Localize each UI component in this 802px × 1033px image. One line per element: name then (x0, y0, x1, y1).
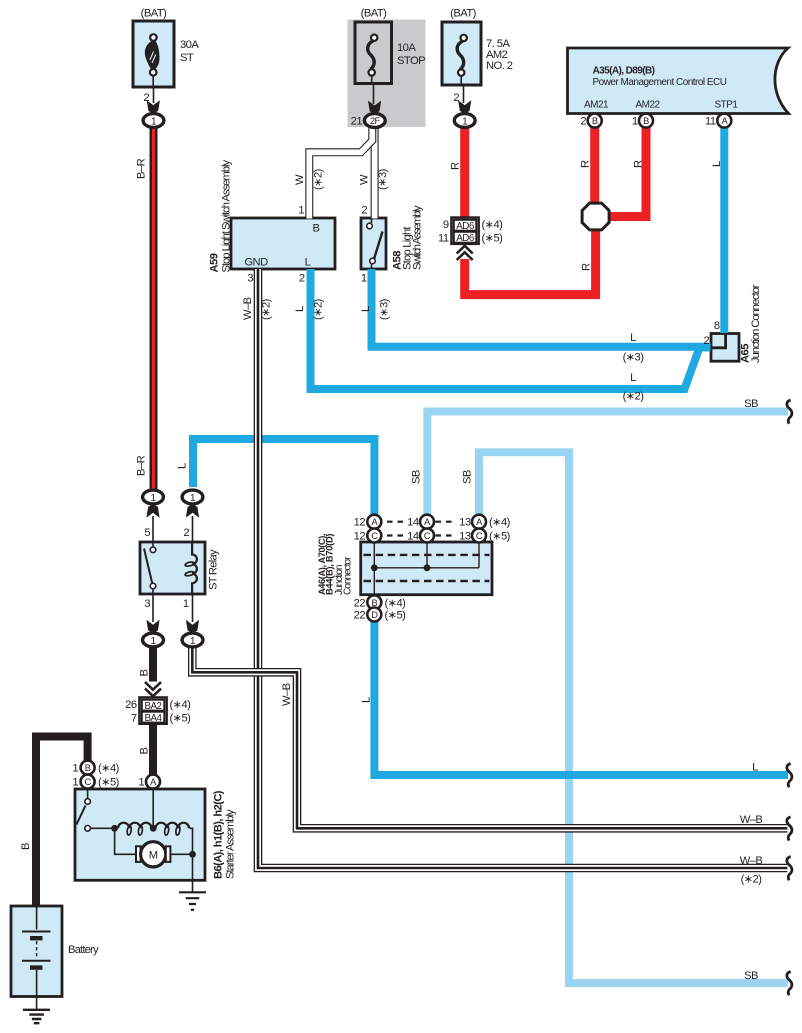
battery internals (22, 863, 51, 1010)
svg-text:L: L (630, 372, 636, 384)
ground below battery (23, 1010, 50, 1023)
connector circle B at ECU AM21 (588, 114, 602, 128)
svg-text:M: M (149, 849, 158, 861)
double chevron above BA2 pointing down (145, 682, 161, 696)
svg-text:L: L (361, 697, 373, 703)
svg-text:2: 2 (453, 92, 459, 104)
svg-text:2: 2 (299, 273, 305, 285)
wire R from fuse 7.5A to AD6 (460, 128, 469, 219)
junction circles 12A 12C (367, 515, 381, 543)
wire B thick black relay pin3 to BA2 (149, 647, 157, 682)
stop light switch A59 box (231, 218, 335, 269)
wire L variant 2 from A59 pin L to A65 pin 2 (311, 269, 711, 389)
svg-text:(∗4): (∗4) (98, 763, 120, 775)
wire break squiggle right edge W-B 827 (787, 817, 792, 841)
svg-text:2: 2 (361, 205, 367, 217)
junction circles 13A 13C (472, 515, 486, 543)
svg-text:R: R (580, 160, 592, 168)
svg-text:(∗5): (∗5) (170, 712, 192, 724)
svg-text:1: 1 (361, 273, 367, 285)
svg-text:1: 1 (72, 763, 78, 775)
fuse 30A pin2 wire and arrow into oval 1 (143, 87, 164, 127)
svg-text:SB: SB (744, 970, 758, 982)
fuse 10A symbol (368, 41, 375, 69)
connector BA2/BA4 double box (140, 698, 167, 724)
svg-text:7: 7 (131, 712, 137, 724)
svg-text:Junction Connector: Junction Connector (750, 284, 762, 363)
oval 1 and up-arrow above relay pin 5 (143, 490, 164, 517)
svg-text:B: B (139, 670, 151, 677)
wire L from A58 pin1 to A65 pin 2 (372, 269, 711, 347)
wire W-B hollow striped from A59 GND to right edge (258, 269, 787, 868)
svg-text:R: R (633, 160, 645, 168)
fuse 30A symbol (145, 40, 158, 69)
junction connector A46/B44 box (361, 542, 492, 595)
svg-text:10A: 10A (397, 42, 416, 54)
svg-text:A59: A59 (209, 253, 221, 272)
svg-text:(∗2): (∗2) (623, 391, 645, 403)
double chevron below AD6 pointing up (457, 246, 473, 260)
svg-text:ST: ST (180, 52, 194, 64)
connector circle B at ECU AM22 (639, 114, 653, 128)
svg-text:B: B (643, 116, 649, 126)
svg-text:(∗2): (∗2) (313, 298, 325, 320)
ST relay internals coil pin2-pin1 (185, 542, 197, 594)
svg-text:11: 11 (705, 116, 716, 128)
svg-text:GND: GND (244, 257, 268, 269)
wire R from ECU AM21 to octagon (590, 128, 599, 205)
svg-text:Stop Light Switch Assembly: Stop Light Switch Assembly (221, 160, 233, 273)
svg-text:B: B (592, 116, 598, 126)
svg-text:(∗2): (∗2) (741, 874, 763, 886)
svg-text:AD6: AD6 (456, 233, 475, 244)
svg-text:W–B: W–B (740, 855, 763, 867)
svg-text:NO. 2: NO. 2 (486, 60, 513, 72)
svg-text:22: 22 (354, 610, 366, 622)
wire L from ECU STP1 to A65 pin 8 (720, 128, 728, 334)
octagon noise filter on AM21 wire (582, 203, 609, 230)
svg-text:W–B: W–B (242, 297, 254, 320)
svg-text:14: 14 (407, 517, 419, 529)
svg-text:SB: SB (411, 470, 423, 484)
svg-text:C: C (371, 531, 378, 541)
fuse 30A ST box (133, 21, 174, 87)
svg-text:B: B (85, 763, 91, 773)
wire break squiggle right edge SB 981 (787, 972, 792, 996)
fuse 10A STOP box (355, 22, 392, 84)
svg-text:AM21: AM21 (584, 100, 609, 111)
svg-text:L: L (294, 306, 306, 312)
svg-text:(∗4): (∗4) (170, 699, 192, 711)
svg-text:(∗4): (∗4) (489, 517, 511, 529)
wire W hollow from fuse 10A oval 2F to A58 pin 2 (371, 125, 379, 219)
starter assembly internals magnetic switch (77, 789, 112, 831)
fuse 7.5A AM2 NO.2 box (442, 22, 481, 85)
wire break squiggle right edge L 775 (787, 764, 792, 788)
A58 switch internals (367, 218, 383, 269)
svg-text:STOP: STOP (397, 55, 425, 67)
svg-text:ST Relay: ST Relay (208, 549, 220, 590)
svg-text:(∗3): (∗3) (379, 298, 391, 320)
wire SB from junction 13A up over and down to right edge (479, 452, 788, 983)
svg-text:(∗2): (∗2) (313, 168, 325, 190)
wire R from ECU AM22 to octagon (608, 128, 646, 217)
fuse 7.5A symbol (457, 41, 464, 69)
svg-text:8: 8 (714, 320, 720, 332)
junction circles 14A 14C (420, 515, 434, 543)
svg-text:B: B (20, 843, 32, 850)
connector circle B at starter (81, 761, 95, 775)
svg-text:L: L (177, 463, 189, 469)
gray variant shading around 10A STOP fuse (348, 20, 426, 128)
svg-text:BA4: BA4 (144, 713, 162, 724)
svg-text:L: L (752, 762, 758, 774)
wire R from AD6 down right and up to octagon (465, 229, 596, 295)
ST relay internals switch pin5-pin3 (144, 542, 156, 594)
svg-text:(∗4): (∗4) (385, 597, 407, 609)
wire B thick black battery to starter pin B (36, 737, 88, 907)
svg-text:(∗3): (∗3) (377, 168, 389, 190)
svg-text:3: 3 (144, 598, 150, 610)
svg-text:SB: SB (462, 470, 474, 484)
svg-text:B–R: B–R (136, 158, 148, 179)
svg-text:W–B: W–B (740, 814, 763, 826)
svg-text:L: L (630, 332, 636, 344)
wire SB from right edge to junction 14A (427, 412, 788, 515)
svg-text:L: L (305, 257, 311, 269)
svg-text:A35(A), D89(B): A35(A), D89(B) (593, 66, 655, 77)
wire break squiggle right edge W-B 866 (787, 857, 792, 881)
down-arrow and oval 1 below relay pin 3 (143, 620, 164, 647)
svg-text:12: 12 (354, 531, 366, 543)
svg-text:L: L (711, 161, 723, 167)
svg-text:2F: 2F (370, 116, 381, 126)
svg-text:21: 21 (351, 115, 363, 127)
connector circle A at starter pin 1 (146, 775, 160, 789)
svg-text:2: 2 (703, 335, 709, 347)
fuse 10A pin wire and arrow into oval 2F (364, 84, 385, 128)
starter internals motor M (115, 828, 196, 892)
svg-text:(∗5): (∗5) (482, 232, 504, 244)
wire B thick black BA4 to starter pin A (149, 725, 157, 776)
junction circles 22B 22D (367, 595, 381, 621)
wire W-B hollow striped from relay pin1 oval to right edge (192, 647, 787, 828)
svg-text:(BAT): (BAT) (141, 8, 167, 20)
svg-text:11: 11 (438, 232, 449, 244)
svg-text:1: 1 (632, 116, 638, 128)
svg-text:2: 2 (183, 527, 189, 539)
wire B-R from fuse 30A to ST relay (black with red stripe) (150, 127, 158, 490)
relay pin wires to ovals (153, 516, 193, 622)
ST relay box (140, 542, 205, 594)
svg-text:D: D (371, 610, 378, 620)
svg-text:B: B (313, 223, 320, 235)
svg-text:AM22: AM22 (635, 100, 660, 111)
svg-text:(∗5): (∗5) (98, 777, 120, 789)
svg-text:C: C (424, 531, 431, 541)
svg-text:9: 9 (443, 219, 449, 231)
junction connector A46/B44 internals (364, 543, 490, 594)
svg-text:Connector: Connector (343, 556, 354, 595)
svg-text:1: 1 (298, 205, 304, 217)
svg-text:R: R (450, 162, 462, 170)
svg-text:(BAT): (BAT) (450, 8, 476, 20)
svg-text:STP1: STP1 (714, 100, 738, 111)
svg-text:13: 13 (459, 531, 471, 543)
svg-text:13: 13 (459, 517, 471, 529)
connector AD6 double box (452, 218, 479, 244)
svg-text:R: R (581, 263, 593, 271)
svg-text:1: 1 (138, 777, 144, 789)
down-arrow and oval 1 below relay pin 1 (182, 620, 203, 647)
connector circle C at starter (81, 775, 95, 789)
svg-text:5: 5 (144, 527, 150, 539)
svg-text:(∗4): (∗4) (482, 219, 504, 231)
svg-text:W: W (359, 174, 371, 185)
connector circle A at ECU STP1 (717, 114, 731, 128)
svg-text:2: 2 (580, 116, 586, 128)
svg-text:C: C (84, 777, 91, 787)
wire L from oval above relay to junction 12A (193, 439, 374, 514)
svg-text:(∗5): (∗5) (385, 610, 407, 622)
svg-text:22: 22 (354, 597, 366, 609)
starter assembly box (75, 789, 205, 880)
svg-text:B: B (139, 748, 151, 755)
svg-text:C: C (476, 531, 483, 541)
svg-text:26: 26 (125, 699, 137, 711)
svg-text:12: 12 (354, 517, 366, 529)
svg-text:AD6: AD6 (456, 221, 475, 232)
wire break squiggle right edge SB 411 (787, 400, 792, 424)
svg-text:(∗5): (∗5) (489, 531, 511, 543)
svg-text:SB: SB (744, 398, 758, 410)
junction connector A65 box (711, 334, 739, 362)
wire L from junction 22D to right edge (374, 621, 788, 775)
svg-text:Battery: Battery (68, 944, 99, 956)
battery box (11, 906, 62, 997)
starter internals coils (111, 789, 192, 851)
svg-text:30A: 30A (180, 39, 199, 51)
svg-text:Switch Assembly: Switch Assembly (412, 205, 424, 270)
svg-text:(∗2): (∗2) (261, 298, 273, 320)
svg-text:B44(B), B70(D): B44(B), B70(D) (325, 534, 335, 595)
svg-text:Power Management Control ECU: Power Management Control ECU (593, 77, 727, 88)
svg-text:L: L (360, 306, 372, 312)
oval 1 and up-arrow above relay pin 2 (182, 490, 203, 517)
stop light switch A58 box (361, 218, 386, 269)
svg-text:W: W (294, 174, 306, 185)
dashes between junction circles (387, 522, 452, 536)
svg-text:Starter Assembly: Starter Assembly (225, 809, 237, 879)
ECU A35(A) D89(B) Power Management Control ECU box (568, 48, 789, 114)
svg-text:(∗3): (∗3) (623, 352, 645, 364)
svg-text:3: 3 (247, 273, 253, 285)
svg-text:B6(A), h1(B), h2(C): B6(A), h1(B), h2(C) (213, 790, 225, 879)
svg-text:1: 1 (183, 598, 189, 610)
fuse 7.5A pin2 wire and arrow into oval 1 (454, 85, 475, 127)
svg-text:(BAT): (BAT) (361, 8, 387, 20)
svg-text:2: 2 (143, 92, 149, 104)
svg-text:1: 1 (72, 777, 78, 789)
wire W hollow variant 2 from oval 2F to A59 pin B (309, 125, 372, 219)
svg-text:W–B: W–B (281, 683, 293, 706)
svg-text:BA2: BA2 (144, 701, 161, 712)
svg-text:14: 14 (407, 531, 419, 543)
svg-text:B–R: B–R (136, 455, 148, 476)
ground below starter (179, 892, 206, 910)
